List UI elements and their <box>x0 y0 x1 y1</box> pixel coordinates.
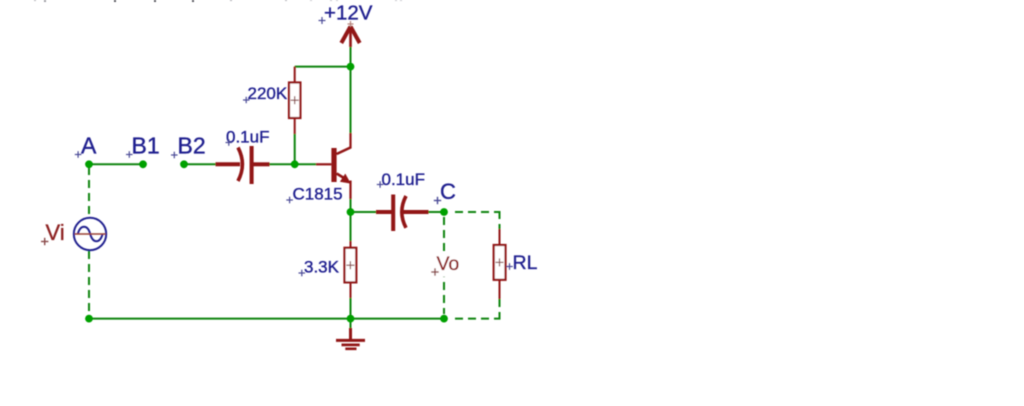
capacitor C3 curved plate <box>402 196 406 228</box>
label C1815 origin cross <box>286 197 293 204</box>
svg-text:B2: B2 <box>178 133 206 159</box>
resistor RL leads <box>499 229 501 246</box>
capacitor C2 0.1uF thick leads <box>216 162 241 166</box>
base node dot <box>291 160 299 168</box>
node B1 dot <box>139 160 147 168</box>
label A origin cross <box>75 151 82 158</box>
source Vi sine wave <box>78 227 103 241</box>
svg-text:220K: 220K <box>248 84 288 103</box>
transistor Q1 base bar <box>331 148 336 182</box>
capacitor C3 0.1uF thick leads <box>376 210 392 214</box>
power symbol +12V arrow <box>341 27 359 48</box>
label 0.1uF output origin cross <box>377 181 384 188</box>
label B1 origin cross <box>126 151 133 158</box>
dashed wire node A to Vi top <box>88 167 90 217</box>
label B2 origin cross <box>171 152 178 159</box>
label RL origin cross <box>506 263 513 270</box>
wire emitter node to R2 top <box>350 212 352 241</box>
resistor RL value cross <box>496 258 504 266</box>
resistor R1 220K leads <box>294 67 296 83</box>
svg-text:B1: B1 <box>132 133 160 159</box>
dashed wire node C to RL column <box>455 211 500 213</box>
bottom node C column dot <box>440 315 448 323</box>
source Vi circle <box>74 218 106 250</box>
node C dot <box>440 208 448 216</box>
svg-text:RL: RL <box>513 252 538 274</box>
node A dot <box>85 160 93 168</box>
wire supply stem to collector <box>350 46 352 134</box>
wire top rail from R1 top to supply node <box>295 66 351 68</box>
transistor Q1 collector diagonal <box>337 148 351 155</box>
svg-text:3.3K: 3.3K <box>304 258 340 277</box>
wire node B2 to C2 <box>184 163 216 165</box>
wire Q1 emitter to emitter node <box>350 199 352 213</box>
svg-text:+12V: +12V <box>324 2 373 25</box>
transistor Q1 emitter diagonal <box>337 174 348 181</box>
label 3.3K origin cross <box>299 270 306 277</box>
capacitor C2 curved plate <box>238 148 242 182</box>
transistor Q1 emitter lead <box>349 181 351 200</box>
ground node dot <box>347 315 355 323</box>
wire node A to node B1 <box>89 163 143 165</box>
node B2 dot <box>180 160 188 168</box>
resistor R1 220K body <box>289 83 300 119</box>
resistor RL body <box>494 245 506 280</box>
dashed wire bottom rail to RL column <box>455 318 501 320</box>
wire bottom rail <box>89 318 444 320</box>
label Vo backing <box>432 253 462 277</box>
emitter node dot <box>347 208 355 216</box>
dashed wire RL column top segment <box>499 211 501 230</box>
power pin origin cross <box>348 21 354 27</box>
transistor Q1 base lead <box>316 163 331 165</box>
transistor Q1 emitter arrow <box>340 174 351 184</box>
wire R1 bottom to base node <box>294 134 296 165</box>
bottom-left node dot <box>85 315 93 323</box>
ground symbol <box>336 328 365 349</box>
label Vi origin cross <box>41 238 48 245</box>
resistor R2 3.3K leads <box>350 241 352 249</box>
wire ground node to ground symbol <box>350 319 352 329</box>
resistor R2 3.3K body <box>345 248 357 283</box>
dashed wire Vi bottom to bottom rail <box>88 251 90 316</box>
resistor R2 value cross <box>346 261 354 269</box>
svg-text:C: C <box>440 179 456 204</box>
svg-text:C1815: C1815 <box>293 185 343 204</box>
cropped text specks at top edge <box>34 0 402 2</box>
capacitor C3 straight plate <box>391 195 395 232</box>
svg-text:Vo: Vo <box>437 253 460 275</box>
svg-text:A: A <box>81 133 97 159</box>
resistor R1 value cross <box>291 96 299 104</box>
wire emitter node to C3 <box>351 211 377 213</box>
dashed wire RL column bottom segment <box>499 299 501 319</box>
svg-text:0.1uF: 0.1uF <box>382 170 425 189</box>
dashed wire node C down to bottom rail <box>443 217 445 314</box>
label +12V origin cross <box>319 17 326 24</box>
label Vo origin cross <box>431 268 438 275</box>
label 220K origin cross <box>243 97 250 103</box>
transistor Q1 collector lead <box>349 133 351 149</box>
capacitor C2 straight plate <box>250 146 254 184</box>
wire C2 to base node <box>269 163 295 165</box>
label C origin cross <box>434 197 441 204</box>
wire base node to Q1 base <box>295 163 316 165</box>
wire C3 to node C <box>428 211 444 213</box>
svg-text:0.1uF: 0.1uF <box>226 128 269 147</box>
source Vi horizontal pin line <box>75 233 106 235</box>
label 0.1uF input origin cross <box>226 139 233 146</box>
supply node dot <box>347 63 355 71</box>
wire R2 bottom to ground node <box>350 298 352 319</box>
